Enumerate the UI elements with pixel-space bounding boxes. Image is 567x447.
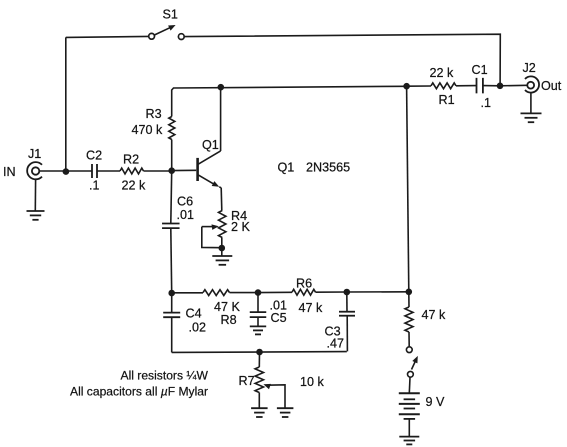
svg-text:R1: R1 (439, 93, 455, 107)
capacitor C2 (91, 164, 93, 178)
svg-text:.01: .01 (177, 208, 195, 222)
resistor R3 (169, 117, 175, 140)
svg-text:47 k: 47 k (422, 308, 447, 322)
svg-text:C6: C6 (177, 195, 193, 209)
svg-text:R6: R6 (296, 277, 312, 291)
svg-text:J1: J1 (28, 147, 41, 161)
wire to J2 (500, 84, 527, 87)
node output rail junction (403, 83, 410, 90)
svg-text:.1: .1 (89, 179, 100, 193)
wire R7 wiper (263, 384, 271, 389)
wire 47k to switch (408, 332, 410, 346)
wire J2 stem (530, 93, 532, 113)
wire switch to battery (408, 377, 411, 393)
svg-text:C5: C5 (271, 311, 287, 325)
svg-text:.1: .1 (481, 96, 492, 110)
capacitor C4 (163, 312, 180, 314)
wire R7 top (258, 352, 260, 367)
resistor R8 (203, 290, 230, 296)
svg-text:47 K: 47 K (214, 300, 241, 314)
ground under C5 (250, 325, 266, 327)
wire C3 bottom (346, 316, 348, 352)
wire base node to C6 (170, 171, 173, 223)
wire switch feed (66, 36, 149, 37)
svg-text:S1: S1 (163, 8, 178, 22)
svg-text:.47: .47 (327, 337, 345, 351)
svg-text:22 k: 22 k (122, 179, 147, 193)
wire C3 node to right rail (347, 291, 409, 293)
node input junction (63, 168, 70, 175)
wire J1 to C2 (39, 170, 92, 172)
battery 9V (399, 392, 420, 394)
wire C1 to J2 node (483, 85, 500, 87)
svg-text:R7: R7 (239, 374, 255, 388)
wire base node to R3 (171, 140, 173, 172)
wire right rail (407, 86, 409, 292)
power switch (406, 347, 412, 353)
svg-text:9 V: 9 V (426, 395, 446, 409)
wire C4 top (171, 293, 173, 312)
wire left vertical to switch (65, 37, 67, 171)
wire C4 bottom (171, 317, 173, 352)
wire mid rail left (172, 292, 203, 294)
wire switch to output node (184, 34, 500, 86)
transistor Q1 (196, 158, 199, 181)
capacitor C6 (162, 223, 180, 225)
svg-text:Q1: Q1 (278, 161, 295, 175)
ground under R7 (251, 407, 268, 409)
wire base node to Q1 (172, 169, 197, 171)
svg-text:All resistors ¼W: All resistors ¼W (121, 369, 209, 383)
svg-text:Q1: Q1 (202, 138, 219, 152)
svg-text:All capacitors all µF Mylar: All capacitors all µF Mylar (70, 385, 208, 399)
svg-text:C1: C1 (472, 63, 488, 77)
wire C2 to R2 (97, 170, 120, 172)
wire C5 node to R6 (258, 291, 292, 293)
capacitor C5 (250, 311, 267, 313)
wire R2 to base node (144, 170, 172, 172)
svg-text:22 k: 22 k (430, 66, 455, 80)
wire R4 to ground (221, 248, 223, 256)
connector J1 (27, 162, 42, 179)
wire battery to ground (408, 419, 410, 437)
ground under J1 (27, 210, 45, 212)
wire rail to 47k (408, 292, 410, 307)
wire bottom rail (172, 351, 347, 354)
capacitor C1 (476, 78, 478, 94)
node C3 junction (344, 289, 351, 296)
wire Q1 collector (220, 87, 222, 151)
ground under battery (399, 436, 419, 438)
node C5 junction (255, 289, 262, 296)
resistor R1 (431, 83, 456, 89)
svg-text:47 k: 47 k (299, 301, 324, 315)
resistor R6 (292, 289, 316, 295)
node right rail mid junction (406, 289, 413, 296)
wire R3 top rail (172, 86, 407, 116)
wire R7 bottom (258, 393, 260, 408)
svg-text:C2: C2 (86, 149, 102, 163)
wire R6 to C3 node (316, 291, 347, 293)
resistor 47k (405, 307, 413, 332)
resistor R4 (219, 211, 226, 238)
wire C3 top (346, 292, 348, 312)
svg-text:470 k: 470 k (132, 123, 164, 137)
node base junction (168, 167, 175, 174)
node J2 junction (497, 83, 504, 90)
wire rail to R1 (407, 85, 431, 87)
ground under R4 (212, 255, 232, 257)
node collector rail junction (218, 84, 225, 91)
svg-text:.02: .02 (189, 321, 207, 335)
switch S1 (149, 33, 155, 39)
node mid-left junction (168, 290, 175, 297)
node R7 junction (256, 349, 263, 356)
wire J1 stem (34, 180, 36, 211)
ground under R7 wiper (277, 407, 294, 409)
capacitor C3 (339, 311, 355, 313)
svg-text:2 K: 2 K (231, 220, 251, 234)
svg-text:IN: IN (3, 165, 16, 179)
wire C6 to mid rail (170, 228, 173, 293)
wire C5 (257, 293, 259, 313)
wire R1 to C1 (456, 85, 477, 87)
svg-text:R3: R3 (146, 107, 162, 121)
resistor R7 (255, 367, 263, 393)
wire R4 wiper (202, 226, 214, 228)
ground under J2 (521, 112, 542, 114)
resistor R2 (120, 168, 144, 174)
wire C5 to ground (257, 317, 259, 326)
svg-text:Out: Out (541, 79, 562, 93)
svg-text:2N3565: 2N3565 (306, 161, 350, 175)
wire Q1 emitter to R4 (220, 188, 223, 211)
node R4 bottom (219, 245, 226, 252)
svg-text:J2: J2 (523, 61, 536, 75)
wire R4 to node (221, 238, 223, 249)
svg-text:10 k: 10 k (300, 375, 325, 389)
connector J2 (525, 76, 539, 92)
wire R8 to C5 node (230, 292, 259, 294)
svg-text:R8: R8 (221, 313, 237, 327)
svg-text:R2: R2 (123, 153, 139, 167)
svg-text:C4: C4 (186, 307, 202, 321)
